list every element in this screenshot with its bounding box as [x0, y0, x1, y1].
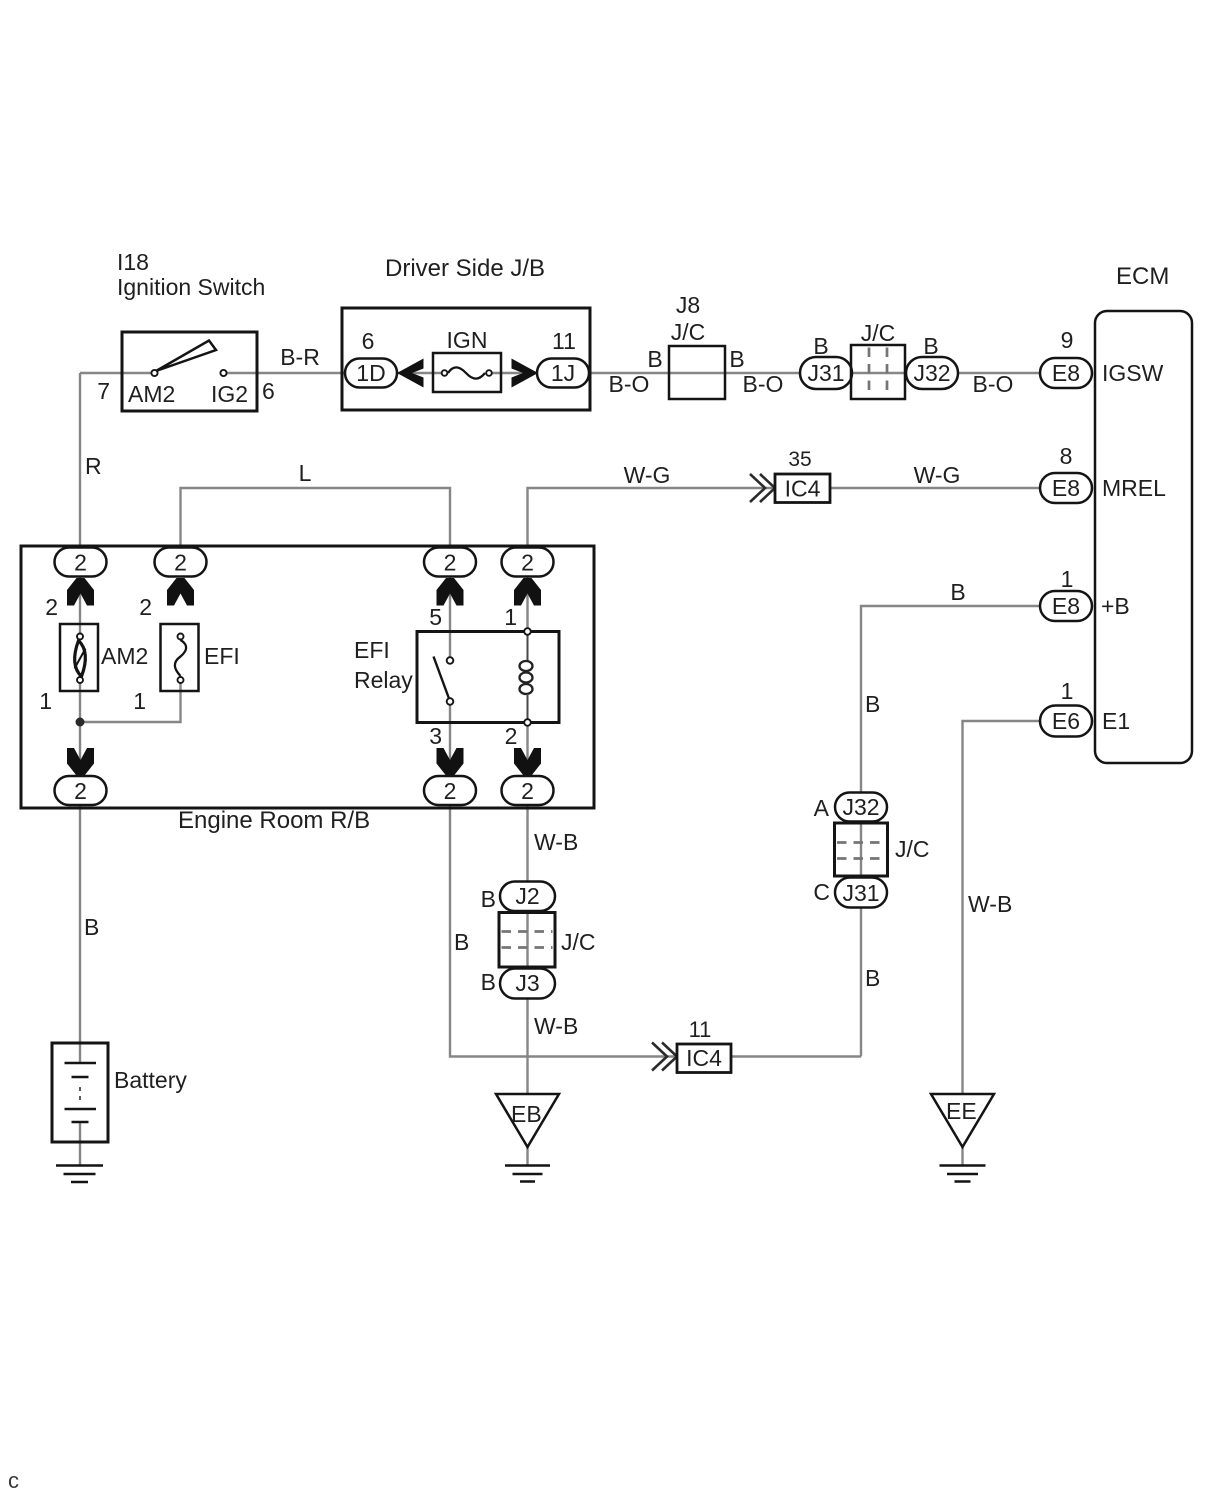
svg-text:J32: J32 [842, 794, 879, 820]
battery plate short 2 [72, 1121, 89, 1124]
svg-text:J/C: J/C [861, 320, 896, 346]
svg-text:3: 3 [429, 723, 442, 749]
fuse EFI contact top [178, 634, 184, 640]
svg-text:2: 2 [139, 594, 152, 620]
ignition switch contact IG2 [220, 370, 226, 376]
wire W-B from ECM E1 down to EE ground [963, 721, 1041, 1096]
chevron marks into IC4 (11) [652, 1043, 677, 1071]
svg-text:EFI: EFI [354, 637, 390, 663]
svg-text:B-O: B-O [609, 371, 650, 397]
wire relay pin2 column down through J2 J/C J3 to EB ground [526, 726, 528, 1096]
battery plate long 2 [65, 1108, 97, 1111]
relay coil terminal 1 circle [524, 628, 531, 635]
wire W-G from relay pin1 oval to IC4 connector [528, 488, 776, 562]
junction connector J8 J/C box [669, 346, 725, 399]
svg-text:IC4: IC4 [686, 1045, 722, 1071]
svg-text:2: 2 [174, 550, 187, 576]
wire relay pin3 column down to IC4 horizontal run [450, 705, 677, 1057]
svg-text:1: 1 [133, 688, 146, 714]
relay contact bottom [447, 698, 454, 705]
ignition switch I18 box [122, 332, 257, 411]
connector E8 oval IGSW pin 9 [1040, 358, 1092, 388]
wire AM2 fuse bottom through junction to battery [79, 683, 81, 1063]
connector 1J oval [537, 359, 589, 388]
svg-text:B: B [454, 929, 469, 955]
up arrow relay pin1 [514, 578, 541, 606]
battery dotted middle [79, 1087, 81, 1100]
svg-text:B-R: B-R [280, 344, 320, 370]
svg-text:6: 6 [362, 328, 375, 354]
battery plate long 1 [65, 1062, 97, 1065]
relay switch lever [434, 657, 450, 699]
connector J31 oval (C) [835, 878, 887, 908]
relay coil loops [520, 661, 533, 694]
connector J2 oval [500, 882, 555, 912]
svg-text:1: 1 [1061, 566, 1074, 592]
up arrow relay pin5 [437, 578, 464, 606]
connector J3 oval [500, 969, 555, 999]
fuse EFI contact bottom [178, 677, 184, 683]
relay contact top [447, 657, 454, 664]
down arrow AM2 column [67, 748, 94, 776]
connector E8 oval +B pin 1 [1040, 591, 1092, 621]
connector J32 oval [906, 357, 958, 389]
battery plate short 1 [72, 1076, 89, 1079]
svg-text:B: B [481, 886, 496, 912]
fuse AM2 element (fusible link leaf) [75, 641, 86, 677]
R/B top oval 2 (relay pin5 column) [424, 548, 476, 577]
svg-text:ECM: ECM [1116, 263, 1169, 290]
wire relay pin5 column [449, 576, 451, 657]
svg-text:1: 1 [39, 688, 52, 714]
svg-text:35: 35 [788, 448, 811, 471]
svg-text:J/C: J/C [561, 929, 596, 955]
down arrow relay pin3 [437, 748, 464, 776]
relay coil wire lower [527, 694, 529, 719]
fuse IGN contact left [442, 370, 448, 376]
svg-text:J2: J2 [515, 883, 539, 909]
wire B from +B of ECM down to J32 [861, 606, 1040, 1057]
svg-text:J31: J31 [842, 880, 879, 906]
svg-text:B-O: B-O [743, 371, 784, 397]
svg-text:W-B: W-B [534, 829, 578, 855]
svg-text:Engine Room R/B: Engine Room R/B [178, 807, 370, 834]
svg-text:2: 2 [45, 594, 58, 620]
wire relay coil pin1 column [526, 576, 528, 631]
dashed pins in J/C [869, 348, 887, 397]
svg-text:MREL: MREL [1102, 475, 1166, 501]
svg-text:B: B [813, 333, 828, 359]
dashed pins in J32/J31 J/C [837, 843, 885, 859]
svg-text:2: 2 [505, 723, 518, 749]
svg-text:E1: E1 [1102, 708, 1130, 734]
fuse AM2 box [60, 624, 98, 691]
wire battery to ground [79, 1122, 81, 1165]
wire AM2 branch vertical (fuse column) [79, 576, 81, 637]
wire EB triangle stem [526, 1147, 528, 1166]
R/B bottom oval 2 (battery column) [55, 776, 107, 805]
ground triangle EB [496, 1094, 559, 1147]
svg-text:J/C: J/C [895, 836, 930, 862]
connector J32 oval (A) [835, 793, 887, 822]
svg-text:EFI: EFI [204, 643, 240, 669]
svg-text:B-O: B-O [973, 371, 1014, 397]
connector 1D oval [345, 359, 397, 388]
R/B top oval 2 (AM2 column) [55, 548, 107, 577]
ignition switch contact AM2 [151, 370, 157, 376]
svg-text:W-B: W-B [968, 891, 1012, 917]
connector E6 oval E1 pin 1 [1040, 706, 1092, 737]
svg-text:B: B [950, 579, 965, 605]
Driver Side J/B box [342, 308, 590, 410]
svg-text:E8: E8 [1052, 360, 1080, 386]
svg-text:B: B [865, 965, 880, 991]
fuse EFI box [161, 624, 199, 691]
junction dot AM2/EFI [76, 718, 85, 727]
svg-text:AM2: AM2 [101, 643, 148, 669]
ground symbol EB [505, 1166, 550, 1182]
svg-text:2: 2 [74, 778, 87, 804]
relay coil wire upper [527, 635, 529, 661]
arrow out to 1J [512, 359, 539, 388]
junction connector J/C box (J31/J32) [851, 345, 905, 399]
svg-text:11: 11 [552, 328, 576, 354]
Engine Room R/B box [21, 546, 594, 808]
R/B bottom oval 2 (pin2 column) [502, 776, 554, 805]
connector E8 oval MREL pin 8 [1040, 473, 1092, 503]
svg-text:Driver Side J/B: Driver Side J/B [385, 255, 545, 282]
svg-text:R: R [85, 453, 102, 479]
chevron marks into IC4 (35) [750, 474, 775, 502]
svg-text:IC4: IC4 [785, 476, 821, 502]
wire EE triangle stem [961, 1147, 963, 1166]
dashed pins in J2/J3 J/C [502, 932, 553, 948]
svg-text:B: B [923, 333, 938, 359]
in-harness connector IC4 box (pin 35) [775, 474, 830, 503]
up arrow AM2 column [67, 578, 94, 606]
svg-text:IGSW: IGSW [1102, 360, 1164, 386]
relay coil terminal 2 circle [524, 719, 531, 726]
svg-text:2: 2 [74, 550, 87, 576]
svg-text:AM2: AM2 [128, 381, 175, 407]
svg-text:1J: 1J [551, 360, 575, 386]
svg-text:2: 2 [444, 778, 457, 804]
wire L from EFI fuse top oval up and over to relay pin 5 oval [181, 488, 451, 562]
ground triangle EE [931, 1094, 994, 1147]
junction connector J/C box (J2/J3) [499, 913, 555, 968]
svg-text:E8: E8 [1052, 475, 1080, 501]
up arrow EFI column [167, 578, 194, 606]
svg-text:L: L [299, 460, 312, 486]
svg-text:B: B [647, 346, 662, 372]
wire W-G from IC4 to ECM MREL [830, 487, 1040, 489]
svg-text:B: B [729, 346, 744, 372]
wire IC4 to B junction column [731, 1055, 861, 1057]
wire B-R from IG2 contact through Driver Side J/B to IGN fuse [227, 372, 441, 374]
wire EFI fuse bottom to junction [80, 683, 181, 722]
ECM box [1095, 311, 1192, 763]
svg-text:J3: J3 [515, 970, 539, 996]
svg-text:W-B: W-B [534, 1013, 578, 1039]
svg-text:11: 11 [689, 1017, 712, 1042]
svg-text:1D: 1D [356, 360, 385, 386]
wire B-R from ignition switch feed, left stub at pin 7 [80, 372, 151, 374]
svg-text:A: A [814, 795, 830, 821]
in-harness connector IC4 box (pin 11) [677, 1044, 731, 1073]
svg-text:IGN: IGN [447, 327, 488, 353]
svg-text:J/C: J/C [671, 319, 706, 345]
svg-text:Ignition Switch: Ignition Switch [117, 274, 265, 300]
svg-text:J8: J8 [676, 292, 700, 318]
svg-text:8: 8 [1060, 443, 1073, 469]
wire R vertical from ignition switch to Engine Room R/B [79, 373, 81, 562]
svg-text:1: 1 [1061, 678, 1074, 704]
svg-text:6: 6 [262, 378, 275, 404]
svg-text:C: C [813, 879, 830, 905]
R/B bottom oval 2 (pin3 column) [424, 776, 476, 805]
svg-text:+B: +B [1101, 593, 1130, 619]
wire B-O from IGN fuse through 1J, J8 J/C, J31, J/C, J32 to ECM IGSW [492, 372, 1040, 374]
fuse EFI element [175, 640, 186, 676]
svg-text:I18: I18 [117, 249, 149, 275]
svg-text:IG2: IG2 [211, 381, 248, 407]
fuse IGN contact right [486, 370, 492, 376]
fuse IGN element [448, 367, 485, 378]
svg-text:2: 2 [521, 550, 534, 576]
svg-text:Battery: Battery [114, 1067, 187, 1093]
svg-text:J32: J32 [913, 360, 950, 386]
svg-text:c: c [8, 1468, 19, 1493]
svg-text:B: B [865, 691, 880, 717]
svg-text:7: 7 [97, 378, 110, 404]
fuse AM2 contact bottom [77, 677, 83, 683]
ignition switch lever [156, 341, 216, 372]
junction connector J/C box (J32/J31) [835, 823, 888, 876]
svg-text:9: 9 [1061, 327, 1074, 353]
svg-text:E6: E6 [1052, 708, 1080, 734]
svg-text:Relay: Relay [354, 667, 413, 693]
svg-text:W-G: W-G [914, 462, 961, 488]
svg-text:B: B [84, 914, 99, 940]
fuse AM2 contact top [77, 634, 83, 640]
ground symbol battery [56, 1166, 103, 1183]
arrow into 1D [397, 359, 424, 388]
down arrow relay pin2 [514, 748, 541, 776]
svg-text:2: 2 [444, 550, 457, 576]
svg-text:EE: EE [946, 1098, 977, 1124]
ground symbol EE [940, 1166, 986, 1182]
svg-text:B: B [481, 969, 496, 995]
battery box [52, 1043, 108, 1142]
svg-text:2: 2 [521, 778, 534, 804]
svg-text:J31: J31 [807, 360, 844, 386]
svg-text:EB: EB [511, 1101, 542, 1127]
svg-text:E8: E8 [1052, 593, 1080, 619]
fuse IGN box [433, 353, 501, 392]
R/B top oval 2 (relay pin1 column) [502, 548, 554, 577]
EFI relay box [417, 632, 559, 723]
svg-text:5: 5 [429, 604, 442, 630]
connector J31 oval [800, 357, 852, 389]
R/B top oval 2 (EFI column) [155, 548, 207, 577]
svg-text:W-G: W-G [624, 462, 671, 488]
svg-text:1: 1 [504, 604, 517, 630]
